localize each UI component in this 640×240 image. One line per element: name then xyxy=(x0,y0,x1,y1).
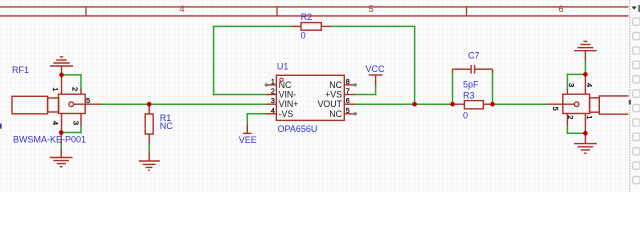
wire: feedback right vertical xyxy=(414,26,416,104)
wire: input net RF1 pin5 to U1 VIN+ xyxy=(101,103,267,105)
panel splitter dotted line xyxy=(629,0,631,192)
svg-text:0: 0 xyxy=(463,111,468,121)
svg-text:4: 4 xyxy=(585,83,594,87)
junction C7 left node xyxy=(450,102,455,107)
wire: feedback left vertical xyxy=(213,26,215,94)
svg-text:5: 5 xyxy=(368,4,373,14)
U1 pin 1 marker circle xyxy=(280,78,283,81)
border zone tick 3 xyxy=(466,7,468,16)
border zone tick 2 xyxy=(276,7,278,16)
U1 pin 8 line xyxy=(344,84,355,86)
wire: C7 right branch vertical xyxy=(492,72,494,104)
wire: VEE horizontal from -VS xyxy=(247,113,266,115)
wire: R1 ground stem segment xyxy=(148,144,150,153)
svg-text:NC: NC xyxy=(329,109,342,119)
svg-text:6: 6 xyxy=(558,4,563,14)
svg-text:BWSMA-KE-P001: BWSMA-KE-P001 xyxy=(13,134,86,144)
svg-text:2: 2 xyxy=(271,87,275,96)
connector RF1 neck xyxy=(48,98,59,112)
panel dropdown triangle xyxy=(632,7,637,10)
svg-text:3: 3 xyxy=(271,96,275,105)
junction J2 top gnd xyxy=(583,72,588,77)
wire: RF1 ground stem segment xyxy=(60,144,62,149)
svg-text:RF1: RF1 xyxy=(12,65,29,75)
svg-text:VIN+: VIN+ xyxy=(279,99,299,109)
wire: VCC vertical to +VS xyxy=(375,85,377,95)
svg-text:4: 4 xyxy=(271,106,275,115)
wire: RF1 pin2 vertical xyxy=(80,75,82,89)
svg-text:2: 2 xyxy=(71,87,80,91)
svg-text:5: 5 xyxy=(346,106,350,115)
ground below J2 xyxy=(574,133,597,153)
sheet border top line 1 xyxy=(0,6,629,8)
connector RF1 pin 2 line xyxy=(80,89,82,95)
svg-text:3: 3 xyxy=(567,83,576,87)
U1 pin 7 line xyxy=(344,94,355,96)
ground below RF1 bars xyxy=(50,157,73,159)
ground below RF1 stem xyxy=(60,133,62,144)
svg-text:5: 5 xyxy=(551,107,560,111)
resistor R1 xyxy=(145,104,153,144)
junction feedback/output xyxy=(412,102,417,107)
wire: RF1 top gnd to pin2 horizontal xyxy=(62,74,82,76)
U1 pin 5 NC dot xyxy=(354,112,357,115)
svg-text:OPA656U: OPA656U xyxy=(278,124,318,134)
connector RF1 pin 3 line xyxy=(80,114,82,127)
svg-text:3: 3 xyxy=(71,121,80,125)
ground below R1 xyxy=(139,153,160,170)
connector RF1 body square xyxy=(58,94,85,113)
svg-text:U1: U1 xyxy=(277,62,289,72)
panel button outlines xyxy=(633,18,640,25)
svg-text:7: 7 xyxy=(346,87,350,96)
svg-text:VCC: VCC xyxy=(366,64,386,74)
connector RF1 pin 5 circle xyxy=(69,102,74,107)
U1 pin 8 NC dot xyxy=(354,83,357,86)
svg-text:-VS: -VS xyxy=(279,109,294,119)
U1 pin 2 line xyxy=(267,94,277,96)
U1 pin 1 NC dot xyxy=(265,83,268,86)
svg-text:VIN-: VIN- xyxy=(279,90,297,100)
connector J2 (output SMA) xyxy=(547,74,629,133)
svg-text:+VS: +VS xyxy=(325,90,342,100)
clipped blue text at left edge xyxy=(0,124,2,129)
U1 pin 6 line xyxy=(344,103,355,105)
wire: +VS horizontal xyxy=(355,94,376,96)
resistor R2 xyxy=(291,23,331,31)
U1 pin 1 line xyxy=(267,84,277,86)
ground above J2 xyxy=(574,41,597,60)
wire: RF1 pin3 vertical xyxy=(80,126,82,133)
connector RF1 barrel xyxy=(12,96,48,114)
wire: output net U1 VOUT to R3 left node xyxy=(355,103,453,105)
wire: J2 top gnd horizontal xyxy=(567,73,585,75)
svg-text:5: 5 xyxy=(86,96,90,105)
svg-text:1: 1 xyxy=(51,87,60,91)
ground above RF1 stem xyxy=(61,66,63,75)
svg-text:C7: C7 xyxy=(468,51,480,61)
wire: J2 pin2 vertical xyxy=(566,126,568,133)
junction RF1 top gnd xyxy=(59,73,64,78)
panel splitter thumb xyxy=(629,100,631,105)
ground above RF1 bars xyxy=(50,65,73,67)
junction J2 bottom gnd xyxy=(583,131,588,136)
svg-text:1: 1 xyxy=(585,115,594,119)
svg-text:0: 0 xyxy=(301,31,306,41)
connector RF1 pin 4 line xyxy=(61,114,63,133)
U1 pin 3 line xyxy=(267,103,277,105)
wire: feedback top right segment xyxy=(331,25,415,27)
svg-text:NC: NC xyxy=(160,121,173,131)
svg-text:R3: R3 xyxy=(463,90,475,100)
junction RF1 bottom gnd xyxy=(59,130,64,135)
wire: feedback top left segment xyxy=(214,25,292,27)
svg-text:2: 2 xyxy=(566,115,575,119)
junction C7 right node xyxy=(490,102,495,107)
svg-text:6: 6 xyxy=(346,96,350,105)
junction R1 tap xyxy=(147,102,152,107)
U1 pin 4 line xyxy=(267,113,277,115)
sheet background with grid xyxy=(0,0,640,192)
svg-text:NC: NC xyxy=(329,80,342,90)
connector RF1 pin 5 line xyxy=(74,103,101,105)
border zone tick 1 xyxy=(85,7,87,16)
wire: C7 left branch vertical xyxy=(452,72,454,104)
svg-text:R2: R2 xyxy=(301,12,313,22)
U1 pin 5 line xyxy=(344,113,355,115)
wire: J2 pin3 vertical xyxy=(566,74,568,89)
connector RF1 pin 1 line xyxy=(61,75,63,94)
svg-text:4: 4 xyxy=(51,121,60,125)
capacitor C7 xyxy=(453,65,493,74)
right UI panel background xyxy=(629,0,640,192)
svg-text:4: 4 xyxy=(179,4,184,14)
wire: J2 top gnd stem segment xyxy=(584,60,586,73)
panel clipped toolbar icon xyxy=(638,5,640,12)
wire: VEE vertical xyxy=(246,114,248,125)
VEE power symbol xyxy=(243,125,252,133)
wire: J2 bottom gnd horizontal xyxy=(567,132,585,134)
svg-text:8: 8 xyxy=(346,77,350,86)
VCC power symbol xyxy=(369,75,383,85)
svg-text:VOUT: VOUT xyxy=(318,99,343,109)
svg-text:NC: NC xyxy=(279,80,292,90)
wire: feedback to VIN- xyxy=(214,94,267,96)
wire: RF1 bottom gnd horizontal xyxy=(61,132,81,134)
sheet border top line 2 xyxy=(0,15,629,17)
svg-text:VEE: VEE xyxy=(239,135,257,145)
resistor R3 xyxy=(453,101,493,109)
svg-text:1: 1 xyxy=(271,77,275,86)
svg-text:5pF: 5pF xyxy=(463,79,479,89)
wire: R3 right node to J2 pin5 xyxy=(493,103,548,105)
op-amp U1 body xyxy=(276,75,344,120)
